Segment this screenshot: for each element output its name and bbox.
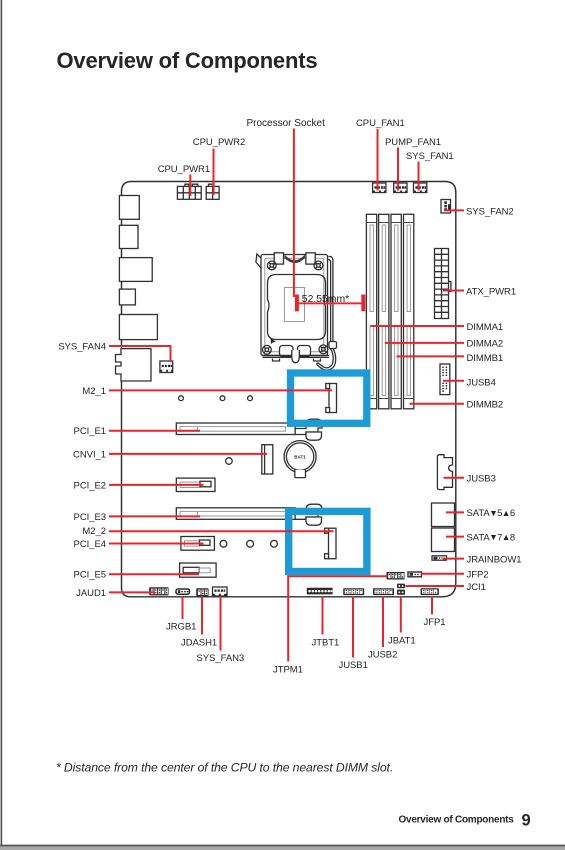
- leader JTBT1: [322, 596, 324, 635]
- M2_1 connector: [326, 384, 337, 413]
- connector SATA 7/8: [432, 528, 455, 552]
- svg-text:PCI_E5: PCI_E5: [74, 570, 106, 581]
- socket lever hook curve: [317, 349, 336, 371]
- connector JTPM1: [387, 572, 405, 580]
- dimension line 52.55mm: [295, 294, 365, 311]
- mounting hole row1 c: [248, 396, 253, 401]
- leader Processor Socket: [293, 129, 295, 298]
- svg-text:JRAINBOW1: JRAINBOW1: [467, 555, 522, 566]
- socket top tab right: [306, 253, 315, 264]
- svg-text:JUSB3: JUSB3: [467, 474, 496, 485]
- io port 1: [119, 196, 139, 220]
- mounting hole row2 a: [220, 540, 227, 547]
- mounting hole row2 c: [271, 540, 278, 547]
- connector SYS_FAN4: [160, 361, 173, 373]
- leader PCI_E3: [109, 515, 200, 517]
- io port 5: [119, 315, 157, 340]
- socket screw bottom-right: [319, 345, 328, 354]
- slot PCI_E3: [176, 504, 322, 525]
- svg-text:JUSB4: JUSB4: [467, 378, 496, 389]
- io port 2: [119, 225, 138, 248]
- leader CPU_PWR2: [213, 149, 215, 196]
- leader JCI1: [406, 585, 465, 587]
- svg-text:Processor Socket: Processor Socket: [247, 118, 326, 129]
- leader JBAT1: [400, 596, 402, 633]
- svg-text:JFP1: JFP1: [424, 617, 446, 628]
- socket top tab left: [274, 253, 283, 264]
- leader PCI_E5: [109, 573, 199, 575]
- svg-text:JUSB2: JUSB2: [368, 650, 397, 661]
- leader ATX_PWR1: [443, 290, 464, 292]
- blue highlight box M2_2: [289, 511, 367, 571]
- socket cursor arrow: [271, 338, 276, 344]
- connector JTBT1: [307, 588, 333, 595]
- svg-text:9: 9: [522, 811, 531, 829]
- battery BAT1: [284, 441, 316, 478]
- connector JBAT1: [397, 590, 405, 595]
- socket bottom tab left: [280, 346, 294, 357]
- svg-text:DIMMB2: DIMMB2: [467, 400, 504, 411]
- connector JUSB1: [343, 588, 364, 595]
- leader SYS_FAN4: [109, 346, 171, 362]
- svg-text:DIMMA1: DIMMA1: [467, 322, 504, 333]
- leader JUSB1: [352, 596, 354, 658]
- page bottom gray strip: [0, 847, 565, 850]
- socket bottom feet: [273, 359, 321, 362]
- svg-text:JCI1: JCI1: [467, 582, 486, 593]
- connector JUSB4: [440, 364, 450, 395]
- dimm slot DIMMB2: [404, 214, 414, 408]
- M2_2 connector: [325, 528, 336, 559]
- leader PCI_E4: [109, 543, 204, 545]
- dimm slot DIMMA2: [379, 214, 389, 408]
- svg-text:JTPM1: JTPM1: [273, 664, 303, 675]
- leader JFP1: [431, 596, 433, 615]
- io port 3: [119, 258, 152, 282]
- svg-text:JRGB1: JRGB1: [166, 622, 196, 633]
- socket center pad: [285, 288, 305, 322]
- connector JUSB3: [437, 455, 452, 490]
- mounting hole row1 b: [220, 396, 225, 401]
- socket outer frame: [261, 255, 328, 356]
- mounting hole mid: [226, 458, 233, 465]
- socket screw top-left: [267, 261, 276, 270]
- leader JRAINBOW1: [443, 558, 464, 560]
- connector JFP2: [408, 572, 422, 577]
- leader DIMMB2: [410, 403, 465, 405]
- socket inner wavy body: [268, 275, 326, 340]
- svg-text:Overview of Components: Overview of Components: [399, 815, 515, 826]
- leader JUSB4: [443, 380, 464, 382]
- leader M2_1: [109, 389, 332, 391]
- page left border: [1, 0, 3, 846]
- io port 4: [119, 289, 135, 305]
- leader JAUD1: [109, 591, 155, 593]
- svg-text:CNVI_1: CNVI_1: [73, 449, 106, 460]
- svg-text:CPU_PWR2: CPU_PWR2: [193, 137, 245, 148]
- leader JDASH1: [201, 596, 203, 635]
- dimm slot DIMMB1: [391, 214, 401, 408]
- leader JUSB3: [444, 477, 465, 479]
- svg-text:JDASH1: JDASH1: [181, 637, 217, 648]
- leader SYS_FAN2: [444, 209, 464, 211]
- leader CPU_FAN1: [377, 129, 379, 191]
- connector SATA 5/6: [432, 503, 455, 527]
- svg-text:SYS_FAN3: SYS_FAN3: [197, 653, 245, 664]
- socket lever: [327, 256, 333, 341]
- svg-text:SATA▼7▲8: SATA▼7▲8: [467, 532, 516, 543]
- socket screw top-right: [314, 261, 323, 270]
- connector SYS_FAN1: [414, 183, 427, 193]
- leader JUSB2: [382, 596, 384, 647]
- svg-text:CPU_PWR1: CPU_PWR1: [158, 164, 210, 175]
- socket lever latch block: [329, 342, 337, 349]
- svg-text:JUSB1: JUSB1: [339, 660, 368, 671]
- slot PCI_E2: [176, 478, 215, 491]
- svg-text:JTBT1: JTBT1: [312, 637, 340, 648]
- connector JRGB1: [176, 589, 190, 594]
- svg-text:DIMMA2: DIMMA2: [467, 339, 504, 350]
- svg-text:* Distance from the center of: * Distance from the center of the CPU to…: [56, 761, 393, 775]
- connector SYS_FAN3: [213, 587, 228, 596]
- connector PUMP_FAN1: [394, 183, 407, 193]
- svg-text:JFP2: JFP2: [467, 570, 489, 581]
- leader SYS_FAN1: [418, 162, 420, 191]
- socket bottom center hook: [292, 350, 300, 363]
- slot PCI_E1: [176, 419, 322, 440]
- svg-text:JAUD1: JAUD1: [76, 588, 106, 599]
- svg-text:SATA▼5▲6: SATA▼5▲6: [467, 508, 516, 519]
- mounting hole row1 a: [179, 396, 184, 401]
- slot PCI_E5: [180, 563, 217, 577]
- connector JRAINBOW1: [432, 556, 447, 560]
- leader M2_2: [109, 530, 334, 532]
- leader CNVI_1: [109, 453, 267, 455]
- svg-text:M2_1: M2_1: [82, 386, 106, 397]
- mounting hole row2 b: [247, 540, 254, 547]
- page bottom border: [0, 845, 565, 847]
- connector CPU_PWR2: [206, 184, 219, 199]
- connector SYS_FAN2: [441, 200, 451, 214]
- connector CPU_FAN1: [373, 183, 386, 193]
- cpu socket U1: [256, 253, 337, 370]
- dimm slot DIMMA1: [366, 214, 376, 408]
- socket screw bottom-left: [263, 345, 272, 354]
- svg-text:SYS_FAN2: SYS_FAN2: [466, 206, 514, 217]
- leader JFP2: [421, 573, 464, 575]
- socket left hook tab: [256, 254, 261, 268]
- connector JAUD1: [149, 587, 168, 595]
- leader SATA56: [446, 511, 464, 513]
- svg-text:SYS_FAN1: SYS_FAN1: [406, 151, 454, 162]
- board outline: [122, 182, 456, 597]
- leader JTPM1: [288, 575, 387, 661]
- socket bottom rail: [263, 355, 330, 357]
- leader CPU_PWR1: [189, 175, 191, 197]
- svg-text:52.55mm*: 52.55mm*: [302, 294, 349, 305]
- leader DIMMB1: [397, 355, 465, 357]
- leader SATA78: [446, 536, 464, 538]
- svg-text:PCI_E3: PCI_E3: [74, 512, 106, 523]
- leader JRGB1: [182, 596, 184, 619]
- slot PCI_E4: [181, 537, 215, 551]
- svg-text:M2_2: M2_2: [82, 526, 106, 537]
- svg-text:DIMMB1: DIMMB1: [467, 353, 504, 364]
- svg-text:PUMP_FAN1: PUMP_FAN1: [385, 137, 441, 148]
- connector JUSB2: [373, 588, 394, 595]
- connector CPU_PWR1: [177, 184, 201, 199]
- connector JDASH1: [196, 588, 208, 596]
- svg-text:Overview of Components: Overview of Components: [57, 48, 318, 73]
- leader DIMMA1: [371, 325, 465, 327]
- connector JFP1: [421, 588, 439, 595]
- leader PUMP_FAN1: [397, 148, 399, 191]
- svg-text:CPU_FAN1: CPU_FAN1: [356, 118, 405, 129]
- leader DIMMA2: [385, 342, 464, 344]
- leader PCI_E2: [109, 484, 204, 486]
- blue highlight box M2_1: [291, 373, 367, 423]
- socket top cam arch: [285, 255, 306, 264]
- svg-text:BAT1: BAT1: [294, 455, 306, 460]
- io port 6 audio stack: [116, 349, 152, 381]
- leader SYS_FAN3: [220, 596, 222, 651]
- svg-text:ATX_PWR1: ATX_PWR1: [466, 286, 516, 297]
- svg-text:PCI_E1: PCI_E1: [74, 426, 106, 437]
- socket bottom tab right: [298, 346, 311, 357]
- svg-text:PCI_E2: PCI_E2: [74, 480, 106, 491]
- connector ATX_PWR1: [435, 249, 451, 319]
- svg-text:JBAT1: JBAT1: [388, 635, 416, 646]
- svg-text:SYS_FAN4: SYS_FAN4: [58, 342, 106, 353]
- connector CNVI_1: [262, 445, 273, 474]
- connector JCI1: [397, 584, 405, 589]
- svg-text:PCI_E4: PCI_E4: [74, 539, 106, 550]
- leader PCI_E1: [109, 430, 200, 432]
